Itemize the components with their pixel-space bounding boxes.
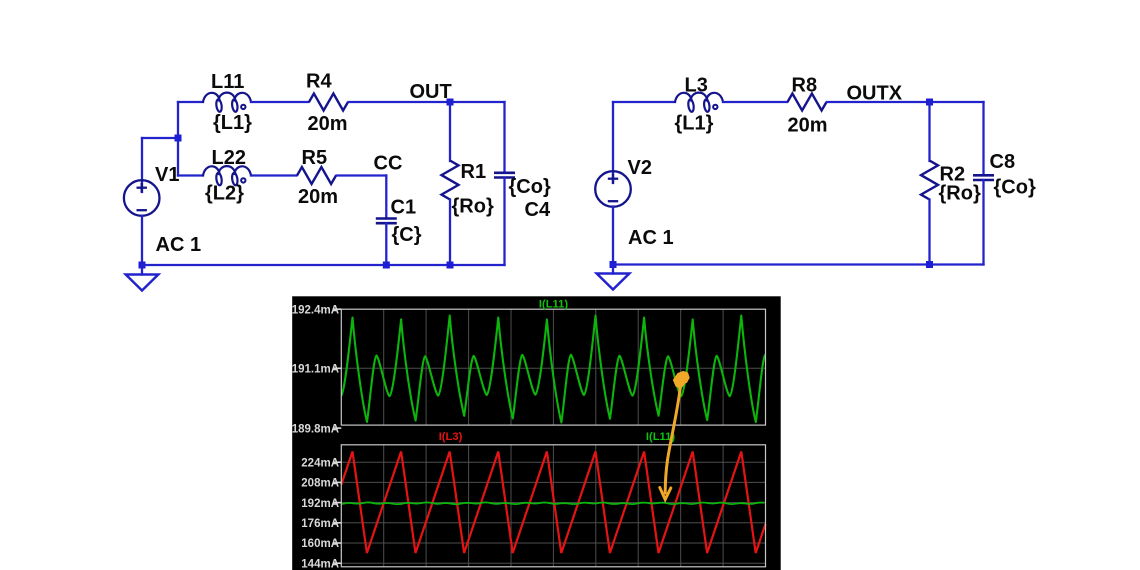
R4 value label (308, 113, 348, 135)
annotation arrow (hand-drawn) (660, 382, 681, 500)
wire row1 a (178, 101, 203, 103)
plot background (292, 296, 781, 570)
axis label 224mA (301, 457, 341, 469)
axis label 176mA (301, 518, 341, 530)
node junction bottom-left (139, 262, 146, 269)
C1 reference label (391, 197, 417, 219)
svg-text:L11: L11 (211, 71, 244, 93)
svg-text:189.8mA: 189.8mA (292, 423, 339, 435)
axis label 208mA (301, 478, 341, 490)
svg-text:OUT: OUT (410, 81, 452, 103)
svg-text:C4: C4 (525, 199, 551, 221)
resistor R4 (309, 94, 348, 111)
resistor R2 (921, 161, 938, 200)
annotation scribble blob (674, 372, 690, 389)
V2 reference label (628, 157, 652, 179)
wire ground stub right (612, 265, 614, 274)
wire C8 lower lead (982, 180, 984, 265)
capacitor C8 (973, 175, 994, 180)
R2 reference label (940, 164, 966, 186)
svg-text:R4: R4 (306, 71, 332, 93)
inductor L11 (203, 93, 251, 112)
L3 value label (675, 113, 714, 135)
node junction V1 feed (175, 135, 182, 142)
resistor R8 (788, 94, 827, 111)
axis label 192.4mA (292, 304, 342, 316)
C4 value label (509, 176, 551, 198)
bottom panel vertical grid (384, 445, 723, 567)
node OUT label (410, 81, 452, 103)
axis label 160mA (301, 538, 341, 550)
node junction C1 bottom (383, 262, 390, 269)
V1 reference label (155, 164, 179, 186)
wire row1 right b (723, 101, 787, 103)
svg-text:AC 1: AC 1 (156, 234, 202, 256)
C8 reference label (990, 151, 1016, 173)
voltage source V1 (124, 180, 160, 216)
trace I(L11) top panel (255, 316, 838, 423)
L22 reference label (212, 147, 246, 169)
C8 value label (994, 177, 1036, 199)
svg-text:20m: 20m (788, 115, 828, 137)
wire R2 lower lead (928, 200, 930, 265)
axis label 144mA (301, 558, 341, 570)
wire C4 lower lead (503, 178, 505, 266)
node OUT junction (447, 99, 454, 106)
axis label 192mA (301, 498, 341, 510)
trace title I(L11) bottom (646, 431, 675, 443)
svg-text:OUTX: OUTX (847, 83, 903, 105)
capacitor C4 (494, 173, 515, 178)
C1 value label (392, 224, 422, 246)
svg-text:224mA: 224mA (301, 457, 339, 469)
wire row1 c (to OUT and C4) (349, 101, 505, 103)
svg-text:V1: V1 (155, 164, 179, 186)
wire ground stub left (141, 265, 143, 275)
wire bottom rail right circuit (613, 263, 984, 265)
inductor L22 (203, 166, 251, 185)
svg-text:AC 1: AC 1 (628, 227, 674, 249)
wire row2 b (251, 174, 297, 176)
axis label 191.1mA (292, 364, 342, 376)
L11 reference label (211, 71, 244, 93)
top panel border (341, 309, 765, 425)
svg-text:I(L3): I(L3) (439, 431, 463, 443)
node OUTX junction (926, 99, 933, 106)
R5 reference label (302, 147, 328, 169)
trace I(L3) bottom panel (341, 452, 765, 554)
svg-text:20m: 20m (308, 113, 348, 135)
wire R1 lower lead (449, 200, 451, 266)
svg-text:C1: C1 (391, 197, 417, 219)
node junction R2 bottom (926, 261, 933, 268)
bottom panel border (341, 445, 765, 567)
svg-text:{C}: {C} (392, 224, 422, 246)
top panel mid grid line 191.1mA (341, 367, 765, 369)
wire V1 lower lead (141, 216, 143, 265)
R8 reference label (792, 75, 818, 97)
svg-text:C8: C8 (990, 151, 1016, 173)
svg-text:{L2}: {L2} (205, 183, 244, 205)
resistor R5 (297, 167, 336, 184)
svg-text:{L1}: {L1} (675, 113, 714, 135)
wire row2 a (178, 174, 203, 176)
V2 value label AC 1 (628, 227, 674, 249)
wire row1 b (251, 101, 309, 103)
svg-text:CC: CC (374, 153, 403, 175)
node junction R1 bottom (447, 262, 454, 269)
svg-text:I(L11): I(L11) (539, 299, 568, 311)
wire bottom rail left circuit (142, 264, 505, 266)
L22 value label (205, 183, 244, 205)
svg-text:208mA: 208mA (301, 478, 339, 490)
svg-text:{Co}: {Co} (994, 177, 1036, 199)
wire V1 top feed (142, 137, 178, 139)
svg-text:{Ro}: {Ro} (939, 183, 981, 205)
resistor R1 (442, 161, 459, 200)
wire V1 upper lead (141, 138, 143, 192)
svg-text:191.1mA: 191.1mA (292, 364, 339, 376)
ground left (126, 275, 159, 291)
axis label 189.8mA (292, 423, 342, 435)
wire left vertical (top rail to row2) (177, 102, 179, 176)
bottom panel horizontal grid (341, 462, 765, 563)
svg-text:192mA: 192mA (301, 498, 339, 510)
L11 value label (213, 112, 252, 134)
wire V2 upper lead (612, 102, 614, 183)
trace I(L11) bottom panel (flat) (341, 502, 764, 504)
R1 reference label (461, 161, 487, 183)
svg-text:144mA: 144mA (301, 558, 339, 570)
trace title I(L11) top (539, 299, 568, 311)
wire C8 upper lead (982, 102, 984, 175)
svg-text:160mA: 160mA (301, 538, 339, 550)
svg-text:L22: L22 (212, 147, 246, 169)
voltage source V2 (595, 171, 631, 207)
top panel vertical grid (384, 309, 723, 425)
svg-text:{L1}: {L1} (213, 112, 252, 134)
wire row1 right c (to OUTX and C8) (827, 101, 984, 103)
R8 value label (788, 115, 828, 137)
R1 value label (452, 196, 494, 218)
R4 reference label (306, 71, 332, 93)
node junction bottom V2 (610, 261, 617, 268)
C4 reference label (525, 199, 551, 221)
L3 reference label (685, 75, 708, 97)
trace title I(L3) bottom (439, 431, 463, 443)
svg-text:V2: V2 (628, 157, 652, 179)
svg-text:{Co}: {Co} (509, 176, 551, 198)
capacitor C1 (376, 219, 397, 224)
svg-text:R5: R5 (302, 147, 328, 169)
wire CC branch upper (385, 176, 387, 219)
svg-text:{Ro}: {Ro} (452, 196, 494, 218)
wire R2 upper lead (928, 102, 930, 161)
svg-text:176mA: 176mA (301, 518, 339, 530)
node OUTX label (847, 83, 903, 105)
wire row2 c to CC (337, 174, 387, 176)
svg-text:20m: 20m (298, 186, 338, 208)
R5 value label (298, 186, 338, 208)
svg-text:R1: R1 (461, 161, 487, 183)
R2 value label (939, 183, 981, 205)
wire C4 upper lead (503, 102, 505, 173)
wire row1 right a (613, 101, 675, 103)
ground right (597, 274, 630, 290)
svg-text:L3: L3 (685, 75, 708, 97)
V1 value label AC 1 (156, 234, 202, 256)
svg-text:R8: R8 (792, 75, 818, 97)
node CC label (374, 153, 403, 175)
wire C1 lower lead (385, 223, 387, 265)
inductor L3 (675, 93, 723, 112)
wire R1 upper lead (449, 102, 451, 161)
wire V2 lower lead (612, 207, 614, 265)
svg-text:192.4mA: 192.4mA (292, 304, 339, 316)
